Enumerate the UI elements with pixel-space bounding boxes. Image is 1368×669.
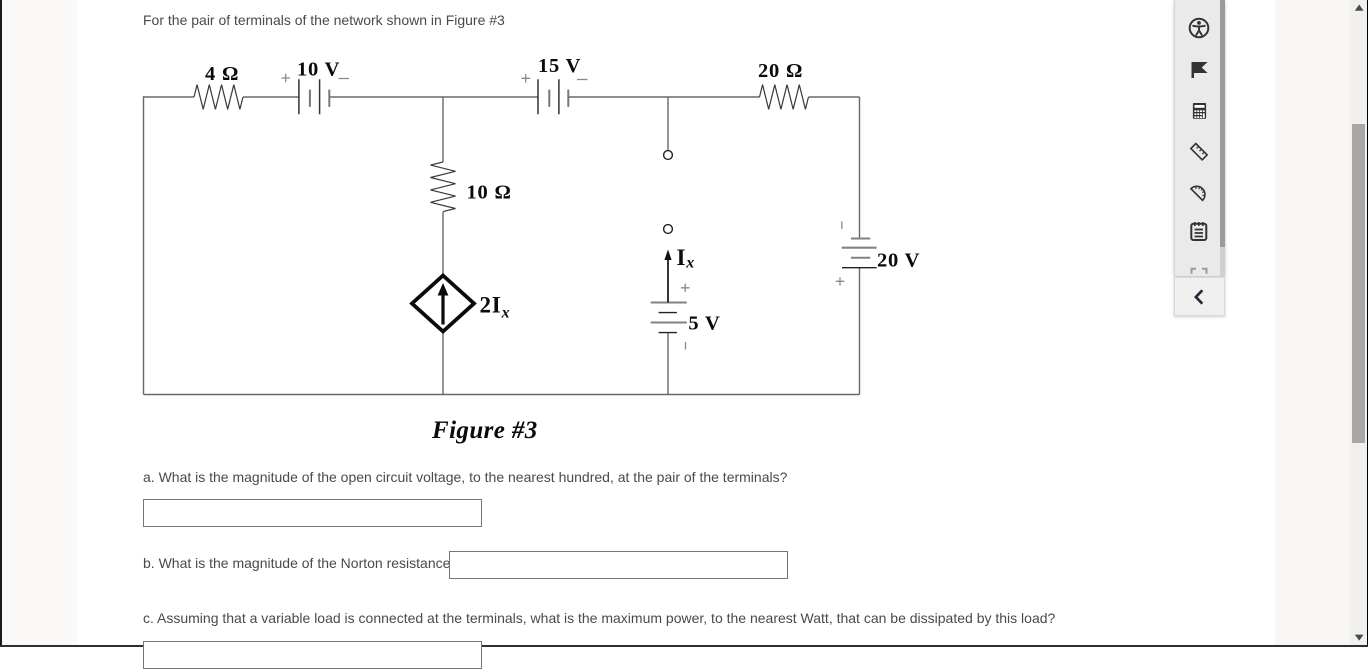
svg-text:10 V: 10 V [297,58,340,80]
svg-text:10 Ω: 10 Ω [467,181,512,203]
svg-text:4 Ω: 4 Ω [205,63,239,85]
svg-text:20 Ω: 20 Ω [758,60,803,82]
svg-text:15 V: 15 V [538,55,581,77]
svg-text:Ix: Ix [677,245,696,272]
svg-text:2Ix: 2Ix [480,293,511,322]
svg-text:5 V: 5 V [688,312,720,334]
svg-text:20 V: 20 V [877,250,920,272]
